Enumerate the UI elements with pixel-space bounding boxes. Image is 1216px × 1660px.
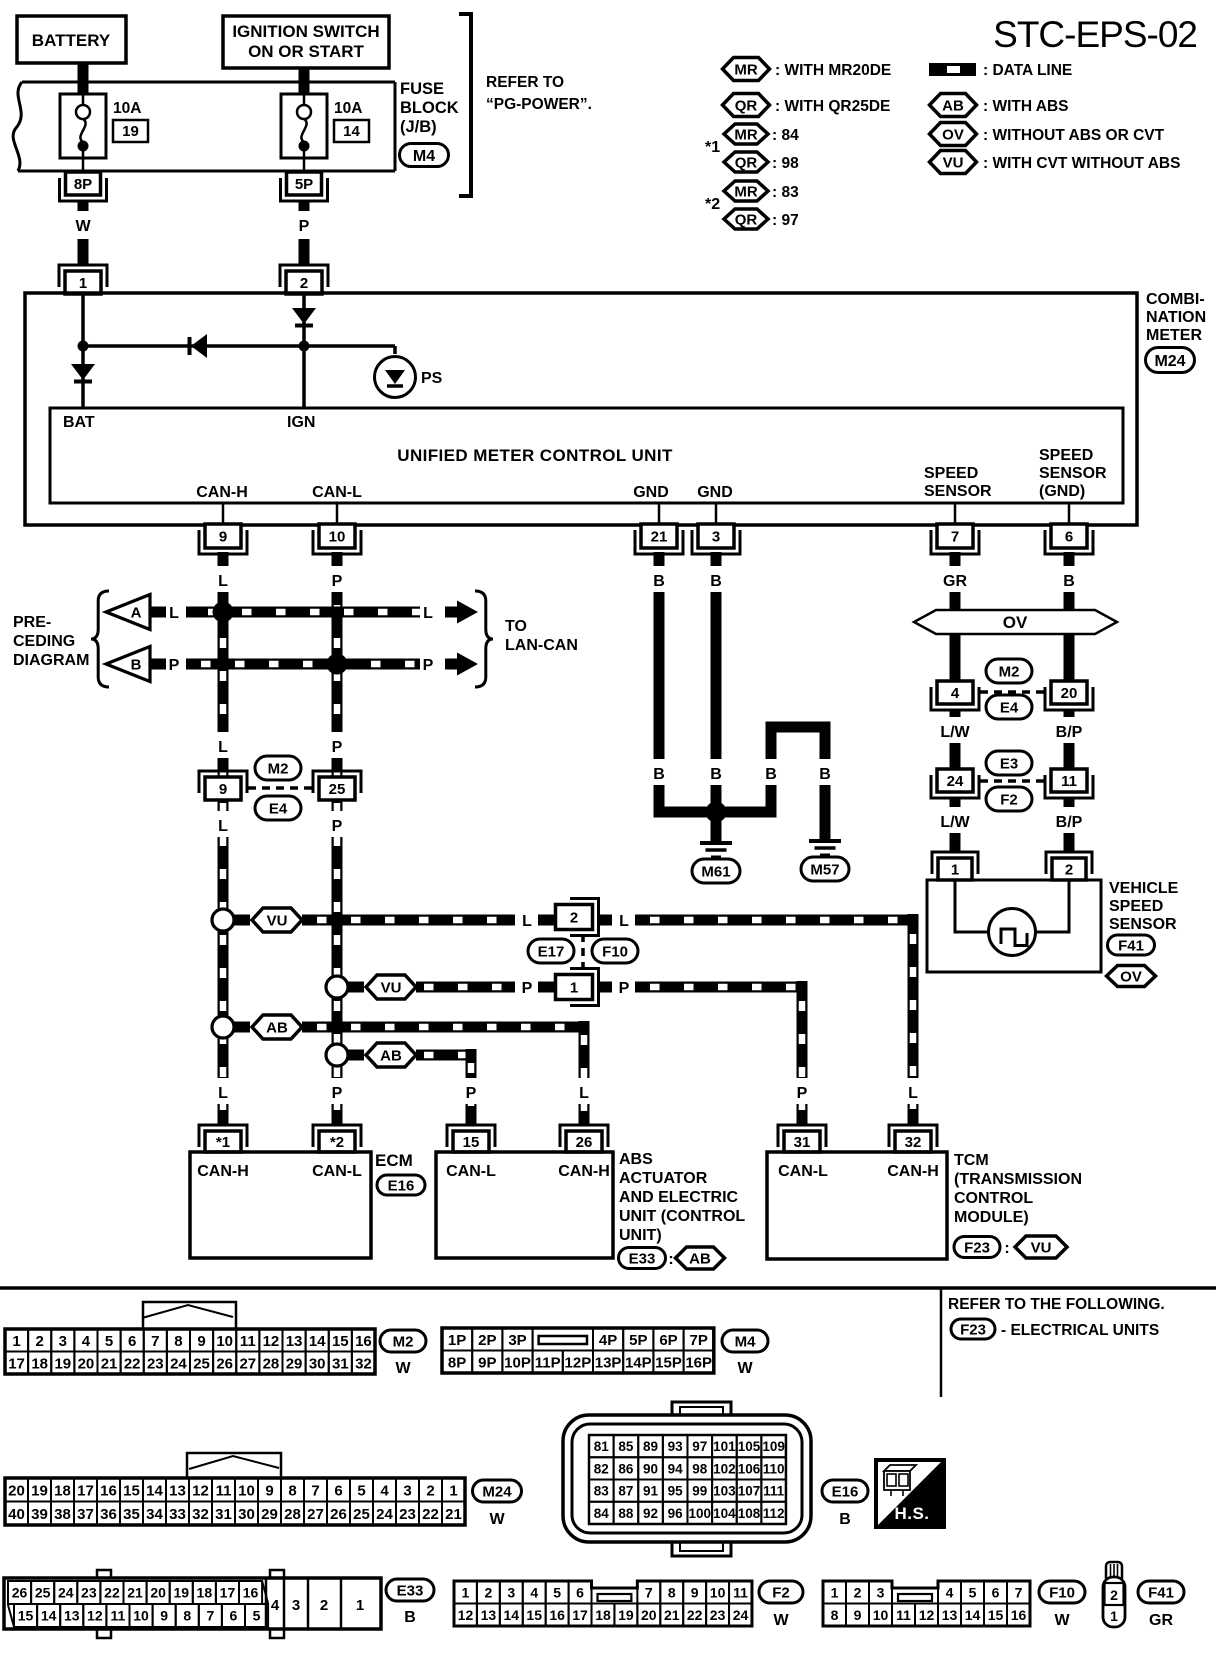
svg-text:20: 20 — [1061, 685, 1078, 702]
connector ref M24 face oval — [473, 1480, 522, 1528]
svg-text:4: 4 — [271, 1597, 280, 1614]
legend symbol MR: 83 — [724, 181, 799, 201]
svg-text:13: 13 — [942, 1607, 958, 1623]
connector pin 32 (TCM) — [889, 1125, 937, 1152]
svg-text:L: L — [423, 605, 433, 622]
svg-text:6P: 6P — [659, 1332, 677, 1349]
svg-text:13P: 13P — [595, 1354, 622, 1371]
svg-text:F10: F10 — [1049, 1584, 1075, 1601]
svg-text:: 83: : 83 — [772, 184, 799, 201]
svg-text:10: 10 — [710, 1584, 726, 1600]
svg-text:10P: 10P — [504, 1354, 531, 1371]
svg-text:1: 1 — [79, 275, 87, 292]
label L to LAN — [423, 605, 433, 622]
combination meter box — [25, 293, 1137, 525]
svg-text:L: L — [619, 913, 629, 930]
svg-text:25: 25 — [35, 1585, 51, 1601]
svg-text:13: 13 — [64, 1608, 80, 1624]
connector ref E17 oval — [528, 939, 574, 963]
connector ref E16 oval — [377, 1175, 425, 1195]
svg-text:2: 2 — [300, 275, 308, 292]
svg-text:36: 36 — [100, 1506, 117, 1523]
svg-text:23: 23 — [710, 1607, 726, 1623]
legend symbol DATA LINE — [929, 62, 1072, 79]
svg-text:COMBI-: COMBI- — [1146, 291, 1205, 308]
connector ref E33 face oval — [386, 1579, 434, 1626]
data line AB P to pin 15 — [416, 1050, 477, 1061]
connector pin 25 (M2/E4 pair) — [313, 771, 361, 800]
svg-text:F41: F41 — [1118, 937, 1144, 954]
svg-text:81: 81 — [594, 1439, 610, 1454]
svg-text:28: 28 — [263, 1355, 280, 1372]
svg-text:FUSE: FUSE — [400, 80, 444, 98]
svg-text:31: 31 — [215, 1506, 232, 1523]
svg-text:B/P: B/P — [1056, 814, 1083, 831]
battery box — [17, 16, 126, 63]
svg-text:10: 10 — [873, 1607, 889, 1623]
svg-text:MR: MR — [734, 183, 757, 200]
connector 2 (E17/F10 pair) — [556, 899, 599, 936]
ABS actuator box — [436, 1152, 613, 1258]
svg-text:15: 15 — [18, 1608, 34, 1624]
arrow B to LAN-CAN — [445, 653, 478, 676]
wire B from pin 21 — [648, 552, 670, 818]
svg-text:24: 24 — [58, 1585, 74, 1601]
svg-text:3: 3 — [877, 1584, 885, 1600]
svg-text:12: 12 — [87, 1608, 103, 1624]
svg-text:7: 7 — [951, 528, 959, 545]
svg-text:PS: PS — [421, 370, 443, 387]
branch circle CAN-L AB — [326, 1044, 348, 1066]
svg-text:19: 19 — [173, 1585, 189, 1601]
svg-text:BAT: BAT — [63, 414, 95, 431]
svg-text:NATION: NATION — [1146, 309, 1206, 326]
svg-text:TO: TO — [505, 618, 527, 635]
svg-text:5: 5 — [553, 1584, 561, 1600]
wire horizontal BAT-IGN link — [83, 344, 395, 348]
svg-text:E16: E16 — [388, 1177, 415, 1194]
label BAT — [63, 414, 95, 431]
svg-text:33: 33 — [169, 1506, 186, 1523]
svg-text:84: 84 — [594, 1506, 610, 1521]
svg-text:MR: MR — [734, 126, 757, 143]
svg-text:93: 93 — [668, 1439, 684, 1454]
svg-text:L: L — [169, 605, 179, 622]
svg-text:105: 105 — [738, 1439, 761, 1454]
legend symbol QR: 98 — [724, 152, 799, 172]
connector 8P — [60, 172, 107, 201]
svg-text:B: B — [653, 573, 665, 590]
wire L/W pin24 to VSS — [940, 798, 970, 852]
svg-text:7: 7 — [311, 1482, 319, 1499]
svg-text:W: W — [75, 218, 91, 235]
svg-text:UNIT (CONTROL: UNIT (CONTROL — [619, 1208, 745, 1225]
svg-text:CAN-H: CAN-H — [197, 1163, 249, 1180]
connector ref F10 oval — [592, 939, 638, 963]
wire B from pin 3 — [705, 552, 727, 812]
wire B arch to M57 — [760, 727, 836, 841]
label CAN-L — [312, 484, 362, 501]
pin leads from unified meter control unit — [223, 503, 1069, 526]
connector ref M24 oval — [1146, 348, 1195, 373]
connector pin 10 (M24) — [313, 524, 361, 554]
connector ref E33 oval with AB — [619, 1247, 725, 1269]
connector pin 21 (M24) — [635, 524, 683, 554]
label L — [169, 605, 179, 622]
svg-text:6: 6 — [128, 1333, 136, 1350]
svg-text:“PG-POWER”.: “PG-POWER”. — [486, 96, 592, 113]
arrow A to LAN-CAN — [445, 601, 478, 624]
connector ref E4 oval speed — [986, 695, 1032, 719]
label SPEED SENSOR — [924, 465, 992, 500]
svg-text:OV: OV — [942, 126, 964, 143]
data line P down to pin 31 — [791, 981, 813, 1125]
svg-text:E33: E33 — [629, 1250, 656, 1267]
svg-text:: 98: : 98 — [772, 155, 799, 172]
diode D1 to BAT — [71, 352, 95, 408]
svg-text:UNIT): UNIT) — [619, 1227, 662, 1244]
svg-text:24: 24 — [733, 1607, 749, 1623]
svg-text:30: 30 — [309, 1355, 326, 1372]
data line L down to pin 32 — [902, 914, 924, 1125]
svg-text:11: 11 — [1061, 773, 1077, 790]
svg-text:20: 20 — [8, 1482, 25, 1499]
svg-text:P: P — [332, 1085, 343, 1102]
svg-text:5: 5 — [253, 1608, 261, 1624]
wire B horizontal to junction — [654, 807, 772, 818]
svg-text:- ELECTRICAL UNITS: - ELECTRICAL UNITS — [1001, 1322, 1159, 1339]
svg-text:BATTERY: BATTERY — [32, 31, 111, 50]
svg-text:: WITH QR25DE: : WITH QR25DE — [775, 98, 890, 115]
node ground junction — [706, 802, 727, 842]
svg-text:26: 26 — [216, 1355, 233, 1372]
svg-text:4: 4 — [82, 1333, 91, 1350]
svg-text:CAN-L: CAN-L — [778, 1163, 828, 1180]
svg-text:111: 111 — [763, 1484, 785, 1499]
svg-text:: WITHOUT ABS OR CVT: : WITHOUT ABS OR CVT — [983, 127, 1165, 144]
svg-text:BLOCK: BLOCK — [400, 99, 459, 117]
svg-text:12P: 12P — [565, 1354, 592, 1371]
connector face E33 — [4, 1570, 381, 1638]
connector pin 9 (M2/E4 pair) — [199, 771, 247, 800]
svg-text:9: 9 — [219, 528, 227, 545]
data line P CAN-L vertical — [326, 552, 348, 1125]
label P — [169, 657, 180, 674]
svg-text:2: 2 — [854, 1584, 862, 1600]
mating line M2-E4 — [248, 786, 314, 790]
svg-text:6: 6 — [576, 1584, 584, 1600]
svg-text:L: L — [579, 1085, 589, 1102]
svg-text:P: P — [332, 573, 343, 590]
svg-text:B/P: B/P — [1056, 724, 1083, 741]
svg-text:*2: *2 — [705, 196, 720, 213]
vehicle speed sensor box — [927, 880, 1101, 972]
svg-text:SENSOR: SENSOR — [1109, 916, 1177, 933]
label VEHICLE SPEED SENSOR — [1109, 880, 1179, 933]
connector ref F23 oval with VU — [954, 1236, 1067, 1258]
diode D3 left-pointing — [190, 334, 208, 358]
svg-text:24: 24 — [947, 773, 964, 790]
svg-text:ON OR START: ON OR START — [248, 42, 364, 61]
svg-text:M4: M4 — [413, 148, 435, 165]
label SPEED SENSOR (GND) — [1039, 447, 1107, 500]
svg-text:11: 11 — [111, 1608, 126, 1624]
svg-text:13: 13 — [286, 1333, 303, 1350]
unified meter control unit box — [50, 408, 1123, 503]
svg-text:GND: GND — [633, 484, 669, 501]
svg-text:26: 26 — [330, 1506, 347, 1523]
svg-text:14: 14 — [343, 123, 360, 140]
svg-text:16: 16 — [243, 1585, 259, 1601]
node junction at pin1 column — [78, 341, 89, 352]
svg-text:110: 110 — [763, 1461, 785, 1476]
svg-text:SPEED: SPEED — [1109, 898, 1163, 915]
svg-text:2P: 2P — [478, 1332, 496, 1349]
separator line — [0, 1286, 1216, 1290]
svg-text:1: 1 — [1110, 1608, 1118, 1624]
connector pin 9 (M24) — [199, 524, 247, 554]
svg-text:1: 1 — [449, 1482, 457, 1499]
svg-text:P: P — [619, 980, 630, 997]
svg-text:1: 1 — [570, 979, 578, 996]
legend symbol VU: WITH CVT WITHOUT ABS — [930, 151, 1181, 174]
svg-text:M4: M4 — [735, 1333, 756, 1350]
svg-text:: 97: : 97 — [772, 212, 799, 229]
svg-text:QR: QR — [735, 154, 758, 171]
svg-text:F23: F23 — [960, 1321, 986, 1338]
connector ref M4 face oval — [722, 1330, 768, 1377]
svg-text:83: 83 — [594, 1484, 610, 1499]
svg-text:37: 37 — [77, 1506, 94, 1523]
svg-text:SPEED: SPEED — [1039, 447, 1093, 464]
svg-text:9: 9 — [219, 781, 227, 798]
svg-text:22: 22 — [124, 1355, 141, 1372]
F23 electrical units note — [951, 1319, 1159, 1339]
svg-text:GND: GND — [697, 484, 733, 501]
svg-text:E4: E4 — [269, 800, 288, 817]
connector face M24 grid — [5, 1453, 465, 1525]
connector pin 4 (M2/E4 pair) — [931, 681, 979, 710]
svg-text:16P: 16P — [685, 1354, 712, 1371]
diode D2 at pin 2 — [292, 294, 316, 346]
svg-text:98: 98 — [692, 1461, 708, 1476]
symbol OV vehicle speed sensor — [1107, 966, 1156, 987]
connector pin 11 (E3/F2 pair) — [1045, 769, 1093, 798]
svg-text:LAN-CAN: LAN-CAN — [505, 637, 578, 654]
svg-text:P: P — [169, 657, 180, 674]
svg-text:3: 3 — [292, 1597, 300, 1614]
label ABS ACTUATOR — [619, 1151, 745, 1244]
svg-text:13: 13 — [169, 1482, 186, 1499]
wire IGN down — [302, 346, 306, 408]
svg-text:1: 1 — [356, 1597, 364, 1614]
svg-text:18: 18 — [31, 1355, 48, 1372]
svg-text:CONTROL: CONTROL — [954, 1190, 1033, 1207]
svg-text:B: B — [404, 1609, 416, 1626]
svg-text:103: 103 — [713, 1484, 736, 1499]
svg-text:L: L — [218, 573, 228, 590]
svg-text:91: 91 — [643, 1484, 659, 1499]
branch circle CAN-L VU — [326, 976, 348, 998]
svg-text:8: 8 — [668, 1584, 676, 1600]
svg-text:4: 4 — [951, 685, 960, 702]
svg-text:: WITH MR20DE: : WITH MR20DE — [775, 62, 891, 79]
svg-text:9: 9 — [691, 1584, 699, 1600]
svg-text:102: 102 — [713, 1461, 736, 1476]
svg-text:7P: 7P — [690, 1332, 708, 1349]
svg-text:4: 4 — [946, 1584, 954, 1600]
svg-text:100: 100 — [689, 1506, 712, 1521]
svg-text:VU: VU — [267, 912, 288, 929]
svg-text:1: 1 — [951, 861, 959, 878]
data line L down to pin 26 — [573, 1021, 595, 1125]
svg-text:34: 34 — [146, 1506, 163, 1523]
svg-text:32: 32 — [192, 1506, 209, 1523]
svg-text:38: 38 — [54, 1506, 71, 1523]
wire pin 1 to BAT — [81, 294, 85, 352]
svg-text:1: 1 — [462, 1584, 470, 1600]
svg-text:10: 10 — [238, 1482, 255, 1499]
svg-text:2: 2 — [484, 1584, 492, 1600]
svg-text:90: 90 — [643, 1461, 658, 1476]
svg-text:CAN-H: CAN-H — [558, 1163, 610, 1180]
fuse 10A 14 — [281, 94, 369, 171]
wire ignition to fuse block — [299, 68, 310, 93]
svg-text:3: 3 — [403, 1482, 411, 1499]
sensor element circle — [989, 909, 1036, 956]
svg-text:8: 8 — [183, 1608, 191, 1624]
svg-text:M2: M2 — [268, 760, 289, 777]
svg-text:82: 82 — [594, 1461, 609, 1476]
node junction CAN-L LAN — [327, 654, 348, 675]
svg-text:(J/B): (J/B) — [400, 118, 437, 136]
svg-text:23: 23 — [399, 1506, 416, 1523]
connector pin 7 (M24) — [931, 524, 979, 554]
svg-text:9: 9 — [854, 1607, 862, 1623]
svg-text:P: P — [522, 980, 533, 997]
svg-text:F2: F2 — [1000, 791, 1018, 808]
svg-text:B: B — [839, 1511, 851, 1528]
svg-text:2: 2 — [1110, 1587, 1118, 1603]
svg-text:31: 31 — [794, 1134, 811, 1151]
svg-text:2: 2 — [426, 1482, 434, 1499]
svg-text:7: 7 — [645, 1584, 653, 1600]
legend note *1 — [705, 139, 720, 156]
svg-text:2: 2 — [570, 909, 578, 926]
connector ref F2 oval — [986, 787, 1032, 811]
svg-text:26: 26 — [576, 1134, 593, 1151]
svg-text:L: L — [522, 913, 532, 930]
svg-text:M2: M2 — [393, 1333, 414, 1350]
connector ref E3 oval — [986, 751, 1032, 775]
connector ref F10 face oval — [1039, 1581, 1085, 1629]
svg-text:97: 97 — [692, 1439, 707, 1454]
svg-text:REFER TO THE FOLLOWING.: REFER TO THE FOLLOWING. — [948, 1296, 1165, 1313]
svg-text:21: 21 — [651, 528, 668, 545]
svg-text:MR: MR — [734, 61, 757, 78]
wire L/W pin4 to pin24 — [940, 710, 970, 769]
svg-text:35: 35 — [123, 1506, 140, 1523]
symbol VU row1 — [234, 908, 302, 932]
connector ref F41 oval — [1108, 935, 1155, 955]
svg-text:: 84: : 84 — [772, 127, 799, 144]
band OV — [914, 610, 1117, 634]
svg-text:M2: M2 — [999, 663, 1020, 680]
svg-text:W: W — [395, 1360, 411, 1377]
node junction at pin2 column — [299, 341, 310, 352]
svg-text:11P: 11P — [535, 1354, 561, 1371]
connector ref F41 face oval — [1138, 1581, 1184, 1629]
svg-text:B: B — [819, 766, 831, 783]
connector pin 26 (ABS) — [560, 1125, 608, 1152]
svg-text:6: 6 — [334, 1482, 342, 1499]
data line LAN row A — [186, 607, 420, 618]
data line AB L to pin 26 — [302, 1022, 590, 1033]
svg-text:REFER TO: REFER TO — [486, 74, 564, 91]
svg-text:14: 14 — [41, 1608, 57, 1624]
svg-text:26: 26 — [12, 1585, 28, 1601]
brace to LAN-CAN — [475, 591, 493, 687]
svg-text:VU: VU — [1031, 1239, 1052, 1256]
svg-text:25: 25 — [193, 1355, 210, 1372]
svg-text:19: 19 — [31, 1482, 48, 1499]
connector pin *2 (ECM) — [313, 1125, 361, 1152]
svg-text:AB: AB — [266, 1019, 288, 1036]
svg-text:B: B — [765, 766, 777, 783]
svg-text:99: 99 — [692, 1484, 707, 1499]
svg-text:B: B — [131, 657, 142, 674]
label IGN — [287, 414, 315, 431]
data line L CAN-H vertical — [212, 552, 234, 1125]
connector ref E4 oval — [255, 796, 301, 820]
svg-text:VU: VU — [381, 979, 402, 996]
H.S. mark — [876, 1460, 944, 1527]
arrow B from preceding diagram — [106, 647, 166, 682]
legend symbol MR: WITH MR20DE — [723, 58, 892, 81]
mating line M2-E4 speed — [980, 690, 1045, 694]
svg-text:2: 2 — [320, 1597, 328, 1614]
svg-text:16: 16 — [355, 1333, 372, 1350]
svg-text:19: 19 — [618, 1607, 634, 1623]
connector ref F2 face oval — [759, 1581, 803, 1629]
connector 1 (E17/F10 pair) — [556, 969, 599, 1006]
svg-text:P: P — [332, 818, 343, 835]
svg-text:20: 20 — [78, 1355, 95, 1372]
svg-text:1P: 1P — [448, 1332, 466, 1349]
svg-text:29: 29 — [261, 1506, 278, 1523]
svg-text:8: 8 — [174, 1333, 182, 1350]
svg-text:12: 12 — [458, 1607, 474, 1623]
svg-text:CAN-H: CAN-H — [887, 1163, 939, 1180]
connector 5P — [281, 172, 328, 201]
label CAN-H — [196, 484, 248, 501]
svg-text:M57: M57 — [810, 861, 839, 878]
svg-text:UNIFIED METER CONTROL UNIT: UNIFIED METER CONTROL UNIT — [397, 446, 673, 465]
svg-text:6: 6 — [992, 1584, 1000, 1600]
svg-text:21: 21 — [664, 1607, 680, 1623]
svg-text:25: 25 — [329, 781, 346, 798]
svg-text:1: 1 — [831, 1584, 839, 1600]
refer to the following note — [948, 1296, 1165, 1313]
svg-text:5: 5 — [969, 1584, 977, 1600]
svg-text:L: L — [908, 1085, 918, 1102]
svg-text:AND ELECTRIC: AND ELECTRIC — [619, 1189, 739, 1206]
svg-text:VEHICLE: VEHICLE — [1109, 880, 1179, 897]
connector pin 3 (M24) — [692, 524, 740, 554]
branch circle CAN-H VU — [212, 909, 234, 931]
ECM box — [190, 1152, 371, 1258]
title STC-EPS-02 — [993, 14, 1197, 55]
